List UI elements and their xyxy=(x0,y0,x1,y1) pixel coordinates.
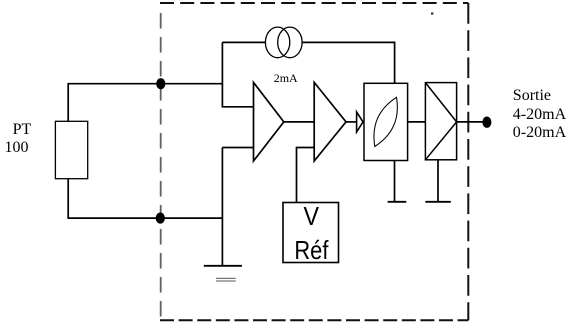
node B junction dot xyxy=(156,213,165,224)
enclosure dashed border bottom xyxy=(160,319,468,321)
enclosure dashed border top xyxy=(160,2,468,4)
modulator block (lens symbol) xyxy=(364,83,408,160)
wire resistor top to node A and to left vertical bus xyxy=(68,84,222,122)
output converter block (triangle) xyxy=(425,83,456,160)
ground G2 xyxy=(388,201,407,203)
svg-text:100: 100 xyxy=(5,139,29,156)
wire U2 reference input from V Ref xyxy=(297,148,315,203)
svg-text:0-20mA: 0-20mA xyxy=(513,124,567,141)
enclosure dashed border left (gray) xyxy=(160,13,162,320)
wire converter output to output terminal xyxy=(457,121,487,123)
wire U1 output to U2 input xyxy=(284,121,314,123)
wire modulator output to converter input xyxy=(408,121,426,123)
svg-text:Réf: Réf xyxy=(294,235,329,265)
enclosure dashed border right xyxy=(467,3,469,320)
wire vertical bus: current source loop down to amp U1 + input xyxy=(222,42,253,106)
label PT 100 xyxy=(5,121,32,156)
wire amp U1 lower input from ground bus xyxy=(222,147,253,149)
svg-text:PT: PT xyxy=(13,121,32,138)
wire modulator bottom to ground G2 xyxy=(394,161,396,202)
wire resistor bottom to node B and to left vertical bus xyxy=(68,179,222,218)
output terminal node xyxy=(482,117,491,128)
voltage reference box V Réf xyxy=(283,201,339,265)
svg-text:2mA: 2mA xyxy=(274,71,298,85)
svg-text:4-20mA: 4-20mA xyxy=(513,106,567,123)
label Sortie 4-20mA 0-20mA xyxy=(513,87,567,141)
op-amp U2 xyxy=(314,82,346,161)
resistor PT100 xyxy=(55,121,87,178)
ground G1 xyxy=(204,266,242,281)
node A junction dot xyxy=(156,78,165,89)
wire current source loop right segment down to modulator block top xyxy=(302,42,395,83)
ground G3 xyxy=(425,201,450,203)
wire current source loop left segment xyxy=(222,41,265,43)
svg-text:Sortie: Sortie xyxy=(513,87,551,104)
arrowhead into modulator xyxy=(357,112,363,132)
svg-text:V: V xyxy=(303,201,319,231)
op-amp U1 xyxy=(254,82,284,161)
current source I1 (2mA) xyxy=(265,27,302,58)
wire converter bottom to ground G3 xyxy=(437,160,439,202)
stray dot artifact xyxy=(431,12,433,14)
wire U2 output to arrow xyxy=(346,121,357,123)
wire ground bus vertical xyxy=(221,148,223,266)
